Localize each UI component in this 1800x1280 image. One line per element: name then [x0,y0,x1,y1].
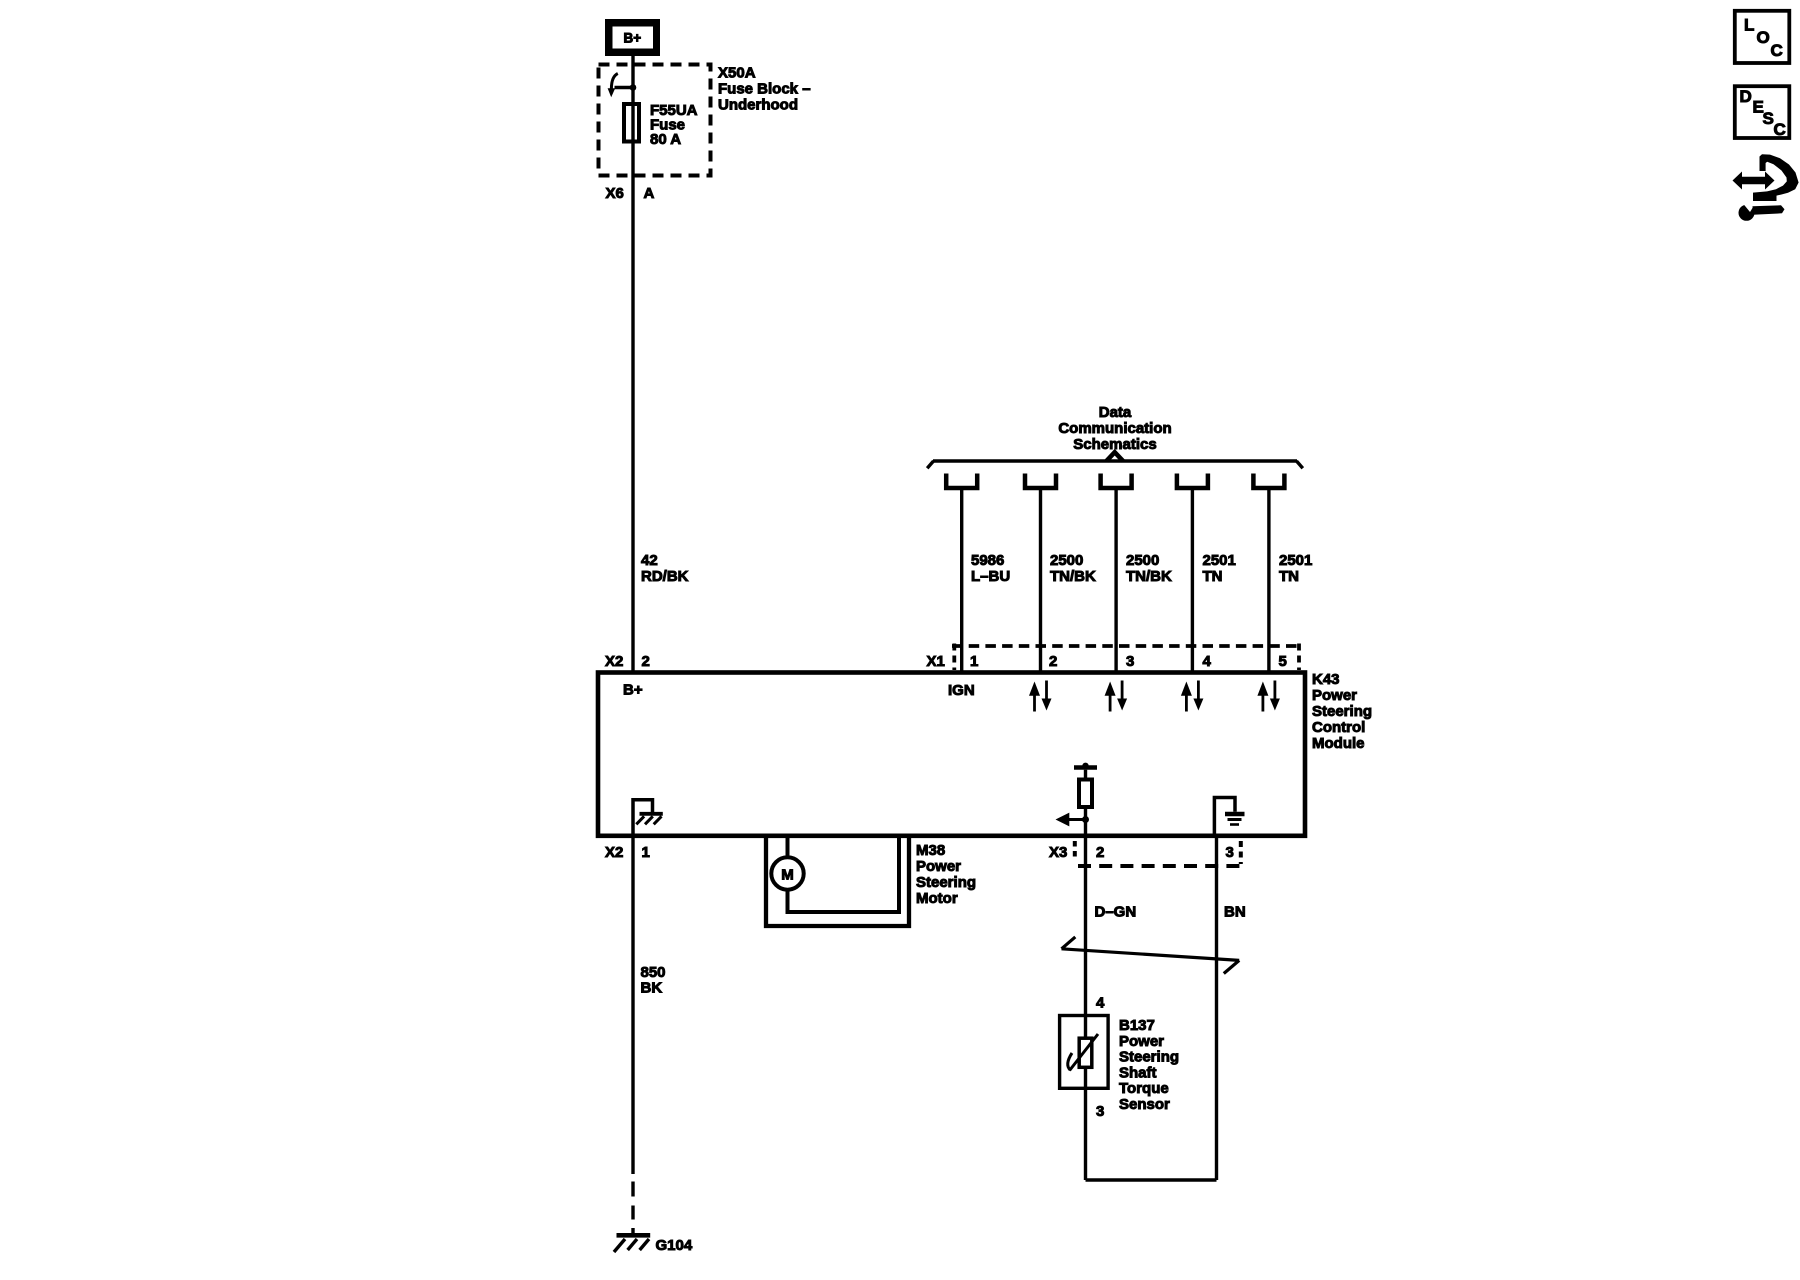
svg-text:G104: G104 [656,1237,693,1254]
svg-text:TN: TN [1279,568,1299,585]
svg-text:5: 5 [1279,653,1287,670]
svg-text:Steering: Steering [916,874,976,891]
svg-text:L–BU: L–BU [971,568,1010,585]
svg-text:2501: 2501 [1279,552,1312,569]
svg-text:Shaft: Shaft [1119,1064,1157,1081]
svg-text:TN/BK: TN/BK [1126,568,1172,585]
svg-text:1: 1 [642,844,650,861]
svg-text:80 A: 80 A [650,131,681,148]
svg-text:Steering: Steering [1312,703,1372,720]
svg-text:M38: M38 [916,842,945,859]
svg-text:B+: B+ [624,31,642,46]
svg-text:2: 2 [1049,653,1057,670]
svg-text:A: A [644,185,655,202]
svg-text:1: 1 [970,653,978,670]
svg-text:Power: Power [1119,1033,1164,1050]
svg-text:2: 2 [1096,844,1104,861]
svg-text:IGN: IGN [948,682,975,699]
svg-text:4: 4 [1096,995,1105,1012]
svg-text:2: 2 [642,653,650,670]
svg-text:C: C [1771,41,1783,60]
svg-text:TN/BK: TN/BK [1050,568,1096,585]
svg-text:B137: B137 [1119,1017,1155,1034]
svg-text:2500: 2500 [1126,552,1159,569]
svg-text:Communication: Communication [1058,420,1171,437]
svg-text:BK: BK [641,980,663,997]
svg-text:K43: K43 [1312,671,1340,688]
svg-text:D–GN: D–GN [1095,904,1137,921]
svg-text:X1: X1 [927,653,945,670]
svg-text:S: S [1763,109,1774,128]
svg-text:X6: X6 [606,185,624,202]
svg-text:3: 3 [1126,653,1134,670]
svg-text:L: L [1744,16,1754,35]
svg-text:C: C [1774,120,1786,139]
svg-text:Sensor: Sensor [1119,1096,1170,1113]
svg-text:Fuse Block –: Fuse Block – [718,81,811,98]
svg-text:Motor: Motor [916,890,958,907]
svg-text:X50A: X50A [718,65,756,82]
svg-text:3: 3 [1096,1103,1104,1120]
svg-text:TN: TN [1203,568,1223,585]
svg-text:O: O [1757,28,1770,47]
svg-text:2501: 2501 [1203,552,1236,569]
svg-text:5986: 5986 [971,552,1004,569]
svg-text:Control: Control [1312,719,1365,736]
svg-text:850: 850 [641,964,666,981]
svg-text:Power: Power [916,858,961,875]
svg-text:RD/BK: RD/BK [641,568,689,585]
svg-text:4: 4 [1203,653,1212,670]
svg-text:X2: X2 [605,844,623,861]
svg-text:D: D [1740,87,1752,106]
svg-text:42: 42 [641,552,658,569]
svg-text:Power: Power [1312,687,1357,704]
svg-text:M: M [781,866,794,883]
svg-text:2500: 2500 [1050,552,1083,569]
svg-text:X2: X2 [605,653,623,670]
svg-text:Module: Module [1312,735,1365,752]
svg-text:Data: Data [1099,404,1132,421]
svg-text:Steering: Steering [1119,1049,1179,1066]
svg-text:X3: X3 [1049,844,1067,861]
svg-text:3: 3 [1226,844,1234,861]
svg-text:BN: BN [1224,904,1246,921]
svg-text:B+: B+ [623,682,643,699]
svg-text:Torque: Torque [1119,1080,1169,1097]
svg-text:Underhood: Underhood [718,97,798,114]
